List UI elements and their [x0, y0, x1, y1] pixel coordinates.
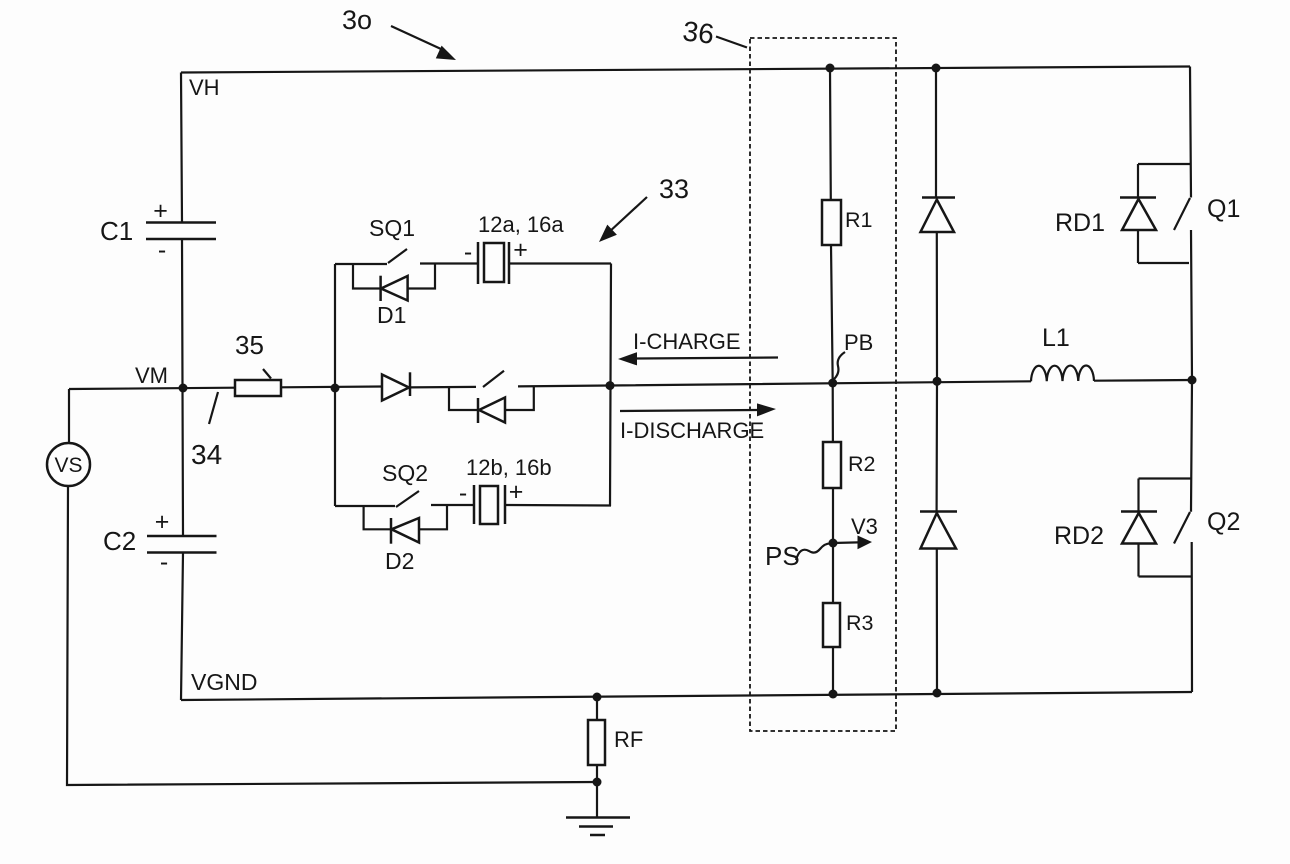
svg-text:D1: D1 — [377, 302, 406, 328]
svg-text:12b, 16b: 12b, 16b — [466, 455, 552, 480]
svg-text:C1: C1 — [100, 216, 133, 246]
svg-text:PB: PB — [844, 330, 873, 355]
wire left rail — [181, 73, 183, 701]
svg-text:RD1: RD1 — [1055, 209, 1105, 237]
resistor 35 — [235, 380, 281, 396]
wire right rail — [1190, 67, 1192, 693]
svg-text:Q1: Q1 — [1207, 195, 1240, 223]
switch SQ2 — [335, 491, 474, 507]
ground — [566, 818, 630, 836]
svg-text:VS: VS — [54, 454, 82, 477]
svg-text:+: + — [509, 478, 524, 506]
svg-text:SQ2: SQ2 — [382, 460, 428, 486]
wire VM mid rail — [69, 380, 1192, 389]
dashed box 36 — [750, 38, 896, 731]
switch SQ1 — [335, 249, 477, 264]
diode RD1 — [1138, 164, 1191, 263]
piezo 12a,16a — [478, 242, 509, 284]
diode mid forward — [382, 375, 409, 401]
svg-text:35: 35 — [235, 330, 264, 360]
svg-text:RF: RF — [614, 727, 643, 752]
junction dots — [179, 384, 188, 393]
resistor RF — [596, 697, 598, 817]
transistor Q1 blade — [1174, 198, 1190, 230]
svg-text:R2: R2 — [848, 452, 875, 476]
svg-text:-: - — [160, 548, 168, 576]
switch mid — [483, 371, 504, 387]
resistor R1 — [830, 68, 833, 383]
capacitor C2 — [147, 536, 217, 553]
svg-text:R1: R1 — [845, 208, 872, 232]
diode RD2 — [1139, 479, 1192, 577]
svg-text:C2: C2 — [103, 526, 136, 556]
svg-text:VM: VM — [135, 363, 168, 388]
diode mid reverse bypass — [449, 387, 534, 410]
svg-text:SQ1: SQ1 — [369, 215, 415, 241]
capacitor C1 — [146, 223, 216, 240]
svg-text:34: 34 — [191, 439, 222, 470]
svg-text:-: - — [459, 479, 467, 507]
svg-text:PS: PS — [765, 541, 800, 571]
svg-text:36: 36 — [681, 15, 716, 50]
svg-text:+: + — [155, 508, 170, 536]
diode D1 — [353, 264, 435, 289]
svg-text:R3: R3 — [846, 611, 874, 635]
svg-text:3o: 3o — [342, 5, 372, 35]
transistor Q2 blade — [1174, 512, 1190, 544]
source VS — [68, 389, 70, 443]
svg-text:L1: L1 — [1042, 324, 1070, 352]
svg-text:VH: VH — [189, 75, 220, 100]
svg-text:I-CHARGE: I-CHARGE — [633, 329, 741, 354]
svg-text:V3: V3 — [851, 514, 878, 539]
piezo 12b,16b — [474, 485, 505, 524]
inductor L1 — [1031, 365, 1094, 381]
leader arrow for 30 — [391, 26, 441, 49]
svg-text:33: 33 — [659, 174, 689, 204]
wire top rail VH — [181, 67, 1190, 73]
svg-text:+: + — [153, 197, 168, 225]
block 33 box wires — [335, 264, 611, 507]
diode upper free-wheel column — [936, 68, 937, 693]
svg-text:D2: D2 — [385, 548, 414, 574]
node V3 arrow — [833, 541, 858, 544]
svg-text:-: - — [464, 238, 472, 266]
svg-text:12a, 16a: 12a, 16a — [478, 212, 564, 237]
resistor R2 — [832, 383, 834, 543]
svg-text:VGND: VGND — [191, 669, 257, 695]
wire VS bottom — [67, 486, 597, 785]
svg-text:-: - — [158, 236, 166, 264]
svg-text:RD2: RD2 — [1054, 522, 1104, 550]
svg-text:I-DISCHARGE: I-DISCHARGE — [620, 418, 764, 443]
diode D2 — [364, 505, 447, 529]
svg-text:+: + — [513, 236, 528, 264]
wire VGND rail — [181, 692, 1192, 700]
resistor R3 — [832, 543, 834, 694]
svg-text:Q2: Q2 — [1207, 508, 1240, 536]
diode lower free-wheel — [920, 510, 957, 513]
